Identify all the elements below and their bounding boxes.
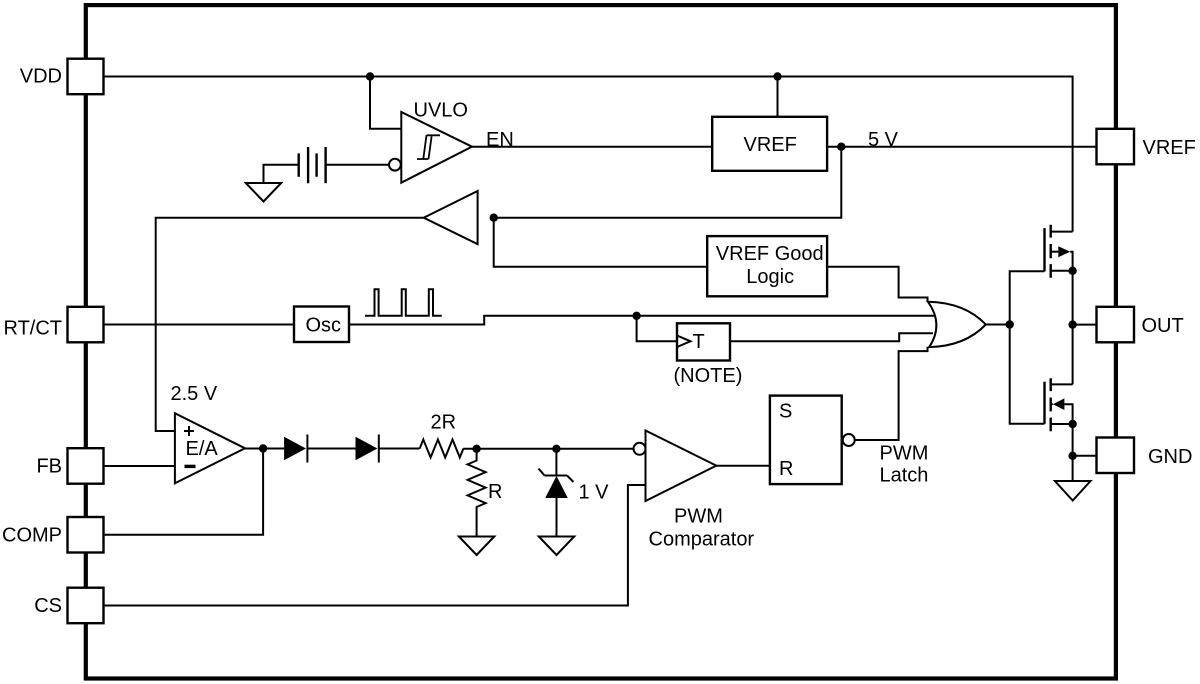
svg-text:EN: EN: [486, 129, 514, 151]
wire D1 to D2: [307, 448, 355, 450]
wire node to PWM comparator: [556, 448, 633, 450]
svg-text:PWM: PWM: [674, 506, 723, 528]
pin COMP: [2, 517, 104, 553]
op-amp E/A error amplifier: [175, 413, 245, 483]
label 5 V: [868, 129, 899, 151]
wire Osc clock output to OR gate: [349, 316, 934, 325]
wire VREF block supply from VDD rail: [777, 77, 779, 117]
svg-text:FB: FB: [36, 456, 62, 478]
wire COMP pin to E/A output: [104, 449, 263, 535]
wire GND node: [1072, 424, 1074, 481]
block Osc: [294, 307, 349, 343]
ground (output stage): [1055, 481, 1091, 501]
svg-text:Comparator: Comparator: [649, 529, 755, 551]
pin VDD: [20, 59, 104, 94]
diode D1: [284, 435, 307, 463]
svg-text:Logic: Logic: [746, 266, 794, 288]
svg-text:5 V: 5 V: [868, 129, 899, 151]
svg-text:Osc: Osc: [306, 315, 342, 337]
pin OUT: [1097, 307, 1184, 343]
junction VDD/VREF: [773, 72, 781, 80]
wire totem-pole mid node: [1072, 271, 1074, 385]
latch PWM S-R: [770, 396, 929, 487]
wire E/A output: [245, 448, 284, 450]
junction E/A output / COMP: [259, 444, 267, 452]
junction upper MOSFET source: [1068, 267, 1076, 275]
diode D2: [356, 435, 379, 463]
wire battery to UVLO inverting input: [326, 164, 389, 166]
wire gate drive upper MOSFET: [1010, 271, 1045, 324]
wire D2 to resistor 2R: [379, 448, 420, 450]
junction divider node: [472, 445, 480, 453]
transistor upper MOSFET: [1045, 225, 1073, 278]
or-gate output logic: [928, 302, 986, 347]
svg-text:COMP: COMP: [2, 525, 62, 547]
junction clock to T flip-flop: [632, 312, 640, 320]
svg-text:GND: GND: [1148, 446, 1192, 468]
junction VDD/UVLO: [366, 72, 374, 80]
svg-text:UVLO: UVLO: [414, 100, 468, 122]
svg-text:RT/CT: RT/CT: [3, 318, 62, 340]
svg-text:E/A: E/A: [186, 438, 219, 460]
wire latch output to OR gate bottom input: [855, 347, 928, 440]
svg-text:T: T: [693, 331, 705, 353]
svg-text:2R: 2R: [431, 412, 457, 434]
label 2.5 V: [171, 383, 218, 405]
inverter buffer: [424, 191, 478, 244]
svg-text:VREF Good: VREF Good: [716, 243, 824, 265]
ground (zener): [539, 537, 574, 556]
svg-text:1 V: 1 V: [579, 482, 610, 504]
wire gate drive lower MOSFET: [1010, 325, 1045, 424]
resistor 2R: [420, 412, 464, 458]
wire battery to ground: [264, 165, 299, 183]
svg-text:S: S: [779, 401, 792, 423]
pin RT/CT: [3, 307, 103, 343]
junction inverter input / VREF good branch: [490, 214, 498, 222]
wire FB pin to E/A inverting input: [104, 465, 175, 467]
wire RT/CT pin to Osc: [104, 324, 294, 326]
wire to VREF Good Logic input: [494, 218, 708, 267]
svg-text:OUT: OUT: [1142, 315, 1184, 337]
junction OR output / gate drive: [1006, 320, 1014, 328]
wire 2R to zener node: [463, 448, 556, 450]
junction zener node: [552, 445, 560, 453]
transistor lower MOSFET: [1045, 378, 1073, 431]
block VREF: [712, 117, 827, 171]
svg-text:(NOTE): (NOTE): [674, 365, 743, 387]
wire PWM comparator output to latch R: [716, 465, 770, 467]
wire T flip-flop clock input: [637, 316, 677, 342]
op-amp PWM comparator: [634, 431, 755, 551]
junction 5V branch: [837, 143, 845, 151]
zener diode 1V: [539, 449, 610, 537]
pin VREF: [1097, 129, 1196, 165]
junction OUT node: [1068, 320, 1076, 328]
wire EN: [472, 146, 712, 148]
op-amp UVLO comparator: [389, 100, 472, 183]
svg-text:PWM: PWM: [880, 443, 929, 465]
svg-text:R: R: [779, 458, 793, 480]
pin CS: [34, 588, 103, 624]
junction lower MOSFET source: [1068, 420, 1076, 428]
wire OR gate output: [986, 324, 1010, 326]
wire CS pin to PWM comparator: [104, 485, 646, 606]
wire 5V to VREF pin: [827, 146, 1096, 148]
svg-text:CS: CS: [34, 595, 62, 617]
wire 2.5V reference to E/A noninverting input: [156, 218, 424, 431]
flip-flop T (NOTE): [674, 323, 743, 387]
junction GND node: [1068, 452, 1076, 460]
label EN: [486, 129, 514, 151]
wire UVLO input from VDD rail: [370, 77, 401, 129]
svg-text:R: R: [488, 481, 502, 503]
wire T output to OR gate: [730, 333, 933, 341]
svg-text:VREF: VREF: [1143, 137, 1196, 159]
wire 5V feedback to inverter input: [494, 147, 842, 218]
clock pulse waveform: [365, 289, 442, 316]
block VREF Good Logic: [707, 236, 827, 296]
pin FB: [36, 448, 103, 484]
svg-text:VREF: VREF: [744, 134, 797, 156]
battery UVLO threshold reference: [299, 147, 326, 183]
wire OUT node to OUT pin: [1073, 324, 1097, 326]
ground (battery): [246, 183, 281, 202]
pin GND: [1097, 438, 1193, 474]
ground (resistor R): [459, 537, 494, 556]
resistor R: [468, 449, 503, 537]
wire GND node to GND pin: [1073, 455, 1097, 457]
svg-text:2.5 V: 2.5 V: [171, 383, 218, 405]
wire VDD rail to upper MOSFET drain: [104, 77, 1073, 232]
svg-text:VDD: VDD: [20, 66, 62, 88]
wire VREF Good Logic to OR gate top input: [827, 267, 927, 302]
svg-text:Latch: Latch: [880, 465, 929, 487]
